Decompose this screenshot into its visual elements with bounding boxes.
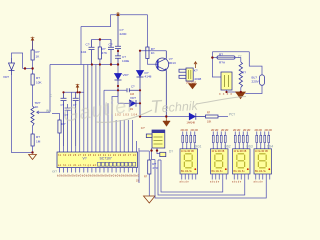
- wire IN+ riser: [49, 65, 51, 113]
- svg-text:103: 103: [130, 93, 135, 96]
- wire pin10: [95, 65, 97, 147]
- svg-text:C?: C?: [131, 85, 135, 89]
- capacitor C1: [89, 40, 95, 65]
- display DS2 pins bottom: [212, 174, 226, 184]
- svg-text:10 9u 0R 0B: 10 9u 0R 0B: [255, 151, 268, 153]
- relay pin plugs: [179, 69, 186, 72]
- resistor R6: [148, 151, 150, 196]
- resistor R4: [148, 15, 158, 65]
- svg-text:470: 470: [152, 166, 157, 170]
- svg-text:PC?: PC?: [229, 113, 235, 117]
- wire top rail: [81, 15, 148, 27]
- svg-text:104: 104: [81, 50, 86, 54]
- ground GND5: [189, 84, 197, 89]
- svg-text:BG 10L 5u: BG 10L 5u: [181, 171, 193, 173]
- wire pin11: [99, 65, 101, 147]
- digit bus U shapes: [152, 157, 267, 198]
- op IC U1 pins top: [60, 146, 137, 152]
- display DS3 body: [233, 149, 251, 174]
- svg-text:xx?: xx?: [52, 170, 57, 174]
- heater T1 body: [221, 72, 232, 90]
- capacitor C3: [115, 16, 121, 56]
- svg-text:2R 2R: 2R 2R: [181, 128, 188, 132]
- wire pin14: [112, 90, 118, 146]
- power VCC4: [77, 87, 79, 92]
- svg-text:BG 10L 5u: BG 10L 5u: [255, 171, 267, 173]
- svg-text:1N4148: 1N4148: [187, 122, 196, 125]
- wire: [218, 116, 228, 118]
- wire pin9: [91, 65, 93, 147]
- power VCC2 head: [116, 13, 120, 16]
- IC U2 body: [152, 130, 165, 148]
- svg-text:C?: C?: [73, 103, 77, 107]
- svg-text:D?: D?: [169, 150, 173, 154]
- svg-text:2?: 2?: [238, 54, 242, 58]
- wire cluster row2: [118, 102, 130, 104]
- svg-text:DS2: DS2: [225, 145, 231, 149]
- svg-text:R?A: R?A: [219, 61, 226, 65]
- fuse R9: [212, 57, 217, 59]
- svg-text:JRC?21F: JRC?21F: [186, 81, 197, 84]
- display inside top tiny text: [181, 151, 268, 173]
- left cluster rail: [64, 91, 85, 93]
- svg-text:a b c d e: a b c d e: [232, 181, 242, 184]
- svg-text:C?: C?: [86, 43, 90, 47]
- IC U1 pins bottom: [60, 168, 137, 173]
- ground GND4: [144, 196, 156, 203]
- display DS1 resistors: [183, 132, 195, 149]
- wire: [32, 146, 34, 153]
- wire pin4: [71, 92, 73, 146]
- svg-text:VD?: VD?: [3, 75, 9, 79]
- wire pin16: [119, 120, 121, 146]
- svg-text:2R 2R: 2R 2R: [255, 128, 262, 132]
- diode VD3: [130, 100, 136, 107]
- capacitor C6: [61, 92, 67, 146]
- wire bus118: [140, 116, 189, 118]
- display decimal points: [194, 168, 270, 170]
- ground GND1: [29, 155, 37, 160]
- ground GND3: [236, 92, 246, 99]
- wire rail analog: [50, 64, 118, 66]
- wire pin20 right: [136, 141, 138, 146]
- seven segment digit DS3: [237, 154, 245, 168]
- svg-text:DIG1: DIG1: [194, 145, 202, 149]
- svg-text:2200: 2200: [120, 32, 127, 36]
- svg-text:V?: V?: [83, 156, 87, 160]
- wire bottom AC: [227, 90, 241, 92]
- AC box loop: [212, 52, 249, 77]
- gray net labels: [46, 54, 273, 173]
- power VCC3: [195, 63, 197, 69]
- wire pin6: [79, 92, 81, 146]
- IC U1 body: [57, 152, 138, 168]
- wire pin18: [127, 120, 129, 146]
- svg-text:BG 10L 5u: BG 10L 5u: [212, 171, 224, 173]
- svg-text:R?: R?: [36, 135, 40, 139]
- seven segment digit DS4: [258, 154, 266, 168]
- svg-text:R?: R?: [36, 76, 40, 80]
- switch S1: [160, 152, 166, 156]
- display DS1 body: [180, 149, 198, 174]
- svg-text:10K: 10K: [207, 121, 212, 124]
- wire pin7: [83, 65, 85, 147]
- diode VD2: [117, 65, 119, 74]
- wire pin15: [115, 120, 117, 146]
- display DS2 resistors: [213, 132, 225, 149]
- wire right drop: [139, 148, 149, 183]
- display DS2 body: [211, 149, 229, 174]
- svg-text:C?: C?: [109, 43, 113, 47]
- svg-text:1M: 1M: [36, 140, 41, 144]
- power VCC1: [32, 41, 34, 51]
- wire collector top: [140, 50, 166, 52]
- wire: [32, 85, 34, 106]
- svg-text:220V: 220V: [252, 80, 260, 84]
- wire pin8: [87, 65, 89, 147]
- svg-text:47K: 47K: [102, 51, 108, 55]
- ground GND2: [165, 117, 167, 122]
- power VCC4 head: [76, 84, 80, 87]
- svg-text:R?: R?: [62, 122, 66, 126]
- display DS3 pins bottom: [234, 174, 248, 184]
- wire rail2: [92, 39, 112, 41]
- wire pin12: [103, 90, 105, 146]
- power arrow heads: [30, 12, 120, 87]
- diode VD4: [139, 51, 141, 71]
- svg-text:10 9u 0R 0B: 10 9u 0R 0B: [181, 151, 194, 153]
- display DS4 pins bottom: [256, 174, 270, 184]
- svg-text:2R 2R: 2R 2R: [243, 128, 250, 132]
- wire loop D1: [12, 53, 23, 69]
- IC U2 bottom wires: [152, 148, 161, 157]
- svg-text:DS4: DS4: [267, 145, 273, 149]
- red labels under displays: [180, 181, 264, 184]
- svg-text:a1 b1 c1 d1 e1 f1 g1 a2: a1 b1 c1 d1 e1 f1 g1 a2: [58, 164, 97, 167]
- svg-text:b0b0b0b0b0b0b0b0b0b0b0b0b0b0b0: b0b0b0b0b0b0b0b0b0b0b0b0b0b0b0b0b0b0b0b0: [57, 173, 139, 177]
- svg-text:4098: 4098: [194, 77, 201, 81]
- wire: [32, 69, 34, 75]
- svg-text:102E: 102E: [122, 59, 129, 63]
- svg-text:R?: R?: [219, 53, 223, 57]
- potentiometer TR1: [31, 106, 34, 126]
- svg-text:a b c d e: a b c d e: [210, 181, 220, 184]
- lamp BL1: [260, 75, 265, 85]
- transistor Q1: [156, 58, 169, 71]
- wire pin17: [123, 120, 125, 146]
- svg-text:2R 2R: 2R 2R: [191, 128, 198, 132]
- wire: [32, 60, 34, 69]
- wire: [12, 75, 33, 153]
- svg-text:C?: C?: [141, 126, 145, 130]
- svg-text:VD?: VD?: [123, 73, 129, 77]
- seven segment digit DS1: [184, 154, 266, 168]
- svg-text:C?: C?: [61, 103, 65, 107]
- svg-text:R?: R?: [242, 71, 246, 75]
- resistor R3: [31, 134, 34, 146]
- svg-text:a b c d e: a b c d e: [254, 181, 264, 184]
- relay K1 body: [186, 68, 193, 81]
- red resistor labels above displays: [181, 128, 272, 132]
- display DS1 pins bottom: [182, 174, 196, 180]
- diode VD1: [9, 58, 15, 75]
- power VCC1 head: [31, 37, 35, 40]
- resistor R7: [99, 40, 101, 65]
- svg-text:102 103 104: 102 103 104: [115, 114, 138, 117]
- display DS4 body: [254, 149, 272, 174]
- svg-text:IN+: IN+: [46, 109, 51, 113]
- svg-text:SC7107: SC7107: [100, 156, 112, 160]
- capacitor C5: [127, 88, 140, 92]
- svg-text:4148: 4148: [145, 75, 152, 79]
- svg-text:K?: K?: [194, 69, 198, 73]
- svg-text:C: C: [50, 94, 52, 98]
- resistor R8: [206, 115, 219, 118]
- resistor R1: [31, 50, 34, 60]
- svg-text:2R 2R: 2R 2R: [211, 128, 218, 132]
- resistor R2: [31, 74, 34, 85]
- diode VD5: [189, 113, 195, 120]
- tiny red pinname rows: [57, 81, 232, 182]
- svg-text:31 30 29 28 27 26 25 24 23 22: 31 30 29 28 27 26 25 24 23 22 21 20 19 1…: [58, 154, 137, 157]
- wire: [32, 126, 34, 134]
- wire: [117, 90, 119, 103]
- svg-text:BG 10L 5u: BG 10L 5u: [234, 171, 246, 173]
- capacitor C2: [108, 40, 114, 65]
- svg-text:1N: 1N: [130, 108, 133, 111]
- wire cluster row1: [104, 89, 127, 91]
- AC right branch: [245, 52, 262, 94]
- heater R10 zigzag: [239, 62, 242, 87]
- display DS3 resistors: [235, 132, 247, 149]
- wire pin13: [107, 103, 109, 146]
- svg-text:VD?: VD?: [130, 96, 136, 100]
- svg-text:10K: 10K: [36, 81, 42, 85]
- IC U1 segment cells: [98, 162, 136, 166]
- svg-text:10 9u 0R 0B: 10 9u 0R 0B: [234, 151, 247, 153]
- svg-text:10 9u 0R 0B: 10 9u 0R 0B: [212, 151, 225, 153]
- label texts blue: [3, 28, 260, 170]
- display DS4 resistors: [257, 132, 269, 149]
- wire: [80, 27, 82, 65]
- svg-text:DS3: DS3: [247, 145, 253, 149]
- capacitor C4: [115, 56, 121, 65]
- svg-text:a b c d e: a b c d e: [180, 181, 190, 184]
- power VCC2: [117, 14, 119, 16]
- pot wiper wire: [37, 111, 51, 114]
- wire cap pin3: [65, 104, 71, 146]
- resistor R5: [52, 114, 60, 147]
- svg-text:C?: C?: [65, 113, 69, 117]
- wire: [32, 41, 34, 51]
- svg-text:R?: R?: [36, 50, 40, 54]
- watermark script: [61, 94, 246, 127]
- wire node rail: [23, 68, 33, 70]
- IC U1 inside texts: [83, 156, 112, 160]
- svg-text:2R 2R: 2R 2R: [265, 128, 272, 132]
- svg-text:2R 2R: 2R 2R: [221, 128, 228, 132]
- svg-text:9013: 9013: [169, 61, 176, 65]
- capacitor C7: [73, 92, 79, 146]
- seven segment digit DS2: [215, 154, 223, 168]
- svg-text:2R 2R: 2R 2R: [233, 128, 240, 132]
- wire pin19: [131, 120, 133, 146]
